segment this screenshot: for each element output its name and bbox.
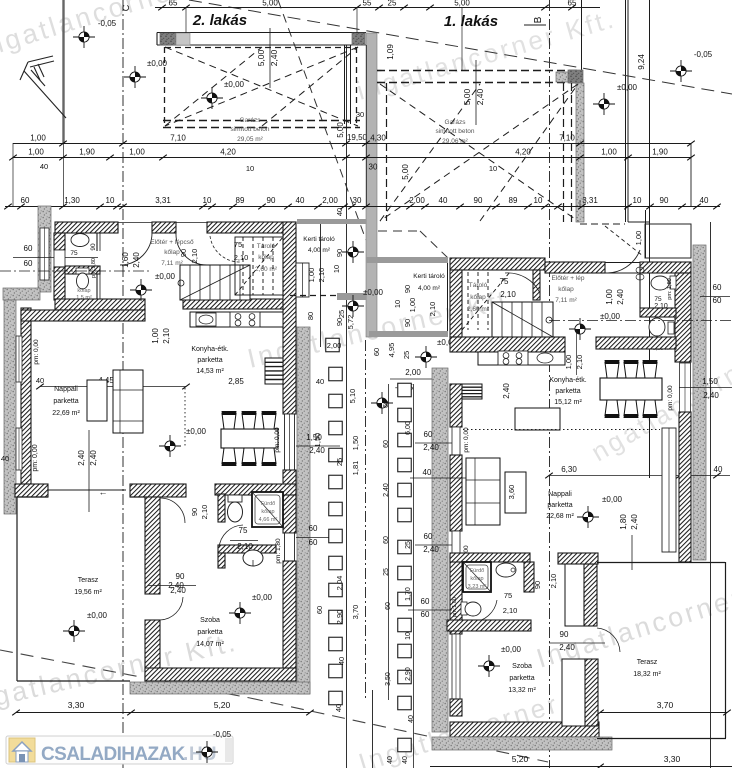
svg-text:1,30: 1,30	[64, 196, 80, 205]
svg-text:1,00: 1,00	[601, 148, 617, 157]
unit2 west wall window upper	[40, 228, 49, 280]
dim chain row2	[13, 157, 691, 159]
svg-text:1,00: 1,00	[30, 134, 46, 143]
svg-text:10: 10	[106, 196, 115, 205]
property dashed diagonal bottom	[0, 650, 250, 698]
unit2 north wall bath	[55, 222, 118, 233]
unit1 kitchen band	[450, 337, 565, 352]
svg-text:60: 60	[421, 597, 430, 606]
svg-text:2,40: 2,40	[383, 483, 390, 497]
svg-text:2,00: 2,00	[405, 368, 421, 377]
svg-text:parketta: parketta	[555, 388, 580, 395]
svg-text:3,30: 3,30	[664, 754, 681, 764]
svg-text:14,07 m²: 14,07 m²	[196, 641, 224, 648]
unit boundary dash-dot middle	[365, 340, 367, 700]
svg-text:5,20: 5,20	[512, 754, 529, 764]
svg-text:simított beton: simított beton	[230, 126, 269, 133]
svg-text:kőlap: kőlap	[164, 249, 180, 256]
unit2 south wall kitchen band	[130, 484, 186, 497]
svg-text:2,40: 2,40	[630, 514, 639, 530]
unit1 dotted divider	[463, 429, 660, 431]
svg-text:1,00: 1,00	[634, 231, 643, 246]
svg-text:40: 40	[423, 468, 432, 477]
unit1 side table	[515, 408, 560, 430]
svg-text:40: 40	[337, 657, 346, 665]
svg-text:2,04: 2,04	[335, 576, 344, 591]
svg-text:2,40: 2,40	[703, 391, 719, 400]
garage 2 right wall lines	[344, 45, 346, 124]
svg-text:2,00: 2,00	[322, 196, 338, 205]
unit2 south wall	[145, 668, 296, 681]
svg-text:1,90: 1,90	[652, 148, 668, 157]
unit2 stairs dashed upper	[235, 237, 283, 295]
svg-text:pm:1,80: pm:1,80	[452, 597, 458, 617]
svg-text:60: 60	[383, 536, 390, 544]
svg-text:75: 75	[504, 591, 512, 600]
right dim connector vline	[690, 143, 692, 207]
svg-text:65: 65	[568, 0, 577, 8]
svg-text:55: 55	[363, 0, 372, 8]
unit1 bath sink2	[496, 563, 516, 577]
unit2 bath toilet	[228, 495, 242, 502]
svg-text:-0,05: -0,05	[213, 730, 232, 739]
unit2 bath west wall	[54, 233, 65, 250]
svg-text:6,30: 6,30	[561, 465, 577, 474]
svg-text:1,00: 1,00	[408, 298, 417, 313]
svg-text:60: 60	[24, 244, 33, 253]
unit2 couch	[113, 370, 143, 433]
site line right double	[625, 0, 627, 222]
svg-text:4,20: 4,20	[515, 148, 531, 157]
svg-text:40: 40	[335, 208, 344, 216]
svg-text:Tároló: Tároló	[469, 282, 488, 289]
svg-text:1,00: 1,00	[307, 268, 316, 283]
unit1 stairs	[492, 302, 553, 337]
svg-text:60: 60	[424, 532, 433, 541]
svg-text:Terasz: Terasz	[78, 577, 99, 584]
svg-text:parketta: parketta	[197, 357, 222, 364]
svg-text:75: 75	[70, 250, 78, 257]
svg-text:40: 40	[1, 454, 9, 463]
garage 1 east wall speckle	[576, 83, 584, 222]
svg-text:Szoba: Szoba	[512, 663, 532, 670]
svg-text:2,00: 2,00	[409, 196, 425, 205]
dim extension guides	[12, 143, 14, 207]
unit2 storage walls east	[283, 222, 296, 414]
unit2 bath sink	[71, 234, 89, 247]
unit1 east speckle	[693, 245, 706, 560]
svg-text:-0,05: -0,05	[694, 50, 713, 59]
svg-text:±0,00: ±0,00	[87, 611, 108, 620]
svg-text:2,40: 2,40	[309, 446, 325, 455]
svg-text:-0,05: -0,05	[98, 19, 117, 28]
unit2 kitchen living dotted divider	[184, 388, 186, 448]
unit2 west wall jog speckle	[3, 288, 40, 300]
svg-text:60: 60	[421, 610, 430, 619]
svg-text:Terasz: Terasz	[637, 659, 658, 666]
logo csaladihazak.hu	[6, 736, 233, 764]
svg-text:2,40: 2,40	[89, 450, 98, 466]
unit2 east window2	[285, 533, 295, 561]
unit2 kerti south dashed	[290, 295, 340, 297]
unit1 shower	[463, 562, 491, 592]
svg-text:5,72: 5,72	[346, 315, 355, 330]
svg-text:22,68 m²: 22,68 m²	[546, 513, 574, 520]
svg-text:60: 60	[309, 538, 318, 547]
svg-text:±0,00: ±0,00	[186, 427, 207, 436]
svg-text:±0,00: ±0,00	[224, 80, 245, 89]
svg-text:±0,00: ±0,00	[155, 272, 176, 281]
svg-text:90: 90	[335, 249, 344, 257]
svg-text:2,10: 2,10	[549, 574, 558, 589]
svg-text:C: C	[121, 4, 131, 11]
unit2 kerti window	[296, 263, 309, 297]
unit2 entry door arc right	[176, 233, 207, 265]
unit2 kitchen counter	[190, 312, 283, 327]
svg-text:1. lakás: 1. lakás	[444, 13, 498, 30]
svg-text:60: 60	[21, 196, 30, 205]
svg-text:90: 90	[179, 249, 188, 257]
unit2 bath block walls	[65, 266, 100, 274]
bottom dim line lowest	[430, 766, 732, 768]
garage 2 corner block left	[160, 33, 176, 45]
svg-text:Fürdő: Fürdő	[261, 501, 275, 507]
fence squares right column	[398, 383, 412, 397]
svg-text:60: 60	[713, 283, 722, 292]
garage 1 top wall dashed	[377, 70, 580, 72]
unit1 terrace outline	[725, 562, 727, 738]
unit2 terrace szoba divider wall	[145, 497, 160, 594]
unit1 storage dashed	[462, 272, 510, 330]
svg-text:2,10: 2,10	[654, 303, 668, 310]
svg-text:simított beton: simított beton	[435, 128, 474, 135]
svg-text:1,09: 1,09	[386, 44, 395, 60]
svg-text:pm: 0,00: pm: 0,00	[33, 339, 40, 365]
svg-text:2. lakás: 2. lakás	[192, 12, 247, 29]
unit1 storage stairs block	[450, 258, 545, 270]
svg-text:3,70: 3,70	[351, 605, 360, 620]
svg-text:Fürdő: Fürdő	[470, 568, 484, 574]
svg-text:5,10: 5,10	[348, 389, 357, 404]
garage 2 bottom wall dashed	[163, 120, 360, 122]
unit2 wc2 sink	[243, 550, 263, 566]
svg-text:65: 65	[169, 0, 178, 8]
svg-text:.: .	[183, 744, 188, 765]
unit1 terrace dim	[600, 712, 727, 714]
svg-text:10: 10	[246, 164, 254, 173]
property line left	[62, 0, 64, 143]
svg-text:2,40: 2,40	[475, 88, 485, 105]
garage 2 side walls dashed	[164, 47, 166, 127]
svg-text:2,40: 2,40	[502, 383, 511, 399]
svg-text:←: ←	[99, 487, 108, 497]
svg-text:19,50: 19,50	[347, 133, 368, 142]
svg-text:2,00: 2,00	[327, 341, 342, 350]
svg-text:10: 10	[633, 196, 642, 205]
svg-text:60: 60	[383, 400, 390, 408]
unit1 bath sink	[651, 276, 669, 290]
svg-text:40: 40	[387, 756, 394, 764]
svg-text:4,95: 4,95	[387, 343, 396, 358]
unit2 window west lower	[16, 428, 22, 470]
svg-text:40: 40	[402, 756, 409, 764]
unit2 pantry shelf	[265, 358, 283, 384]
unit2 sink	[196, 313, 216, 326]
unit2 north wall storage	[207, 222, 295, 233]
unit1 dim 6.30	[549, 475, 680, 477]
svg-text:±0,00: ±0,00	[252, 593, 273, 602]
svg-text:5,00: 5,00	[256, 49, 266, 66]
svg-text:5,00: 5,00	[462, 88, 472, 105]
unit2 kerti tarolo	[297, 219, 366, 224]
right vline	[710, 222, 712, 768]
svg-text:10: 10	[534, 196, 543, 205]
svg-text:90: 90	[403, 285, 412, 293]
svg-text:pm: 0,00: pm: 0,00	[274, 427, 281, 453]
svg-text:5,00: 5,00	[454, 0, 470, 8]
svg-text:3,31: 3,31	[582, 196, 598, 205]
svg-text:1,00: 1,00	[129, 148, 145, 157]
svg-text:9,24: 9,24	[637, 54, 646, 70]
unit2 dim 4.45	[40, 386, 186, 388]
svg-text:3,23 m²: 3,23 m²	[468, 584, 487, 590]
svg-text:90: 90	[533, 581, 542, 589]
unit2 wc toilet	[76, 268, 89, 274]
svg-text:60: 60	[315, 606, 324, 614]
svg-text:Kerti tároló: Kerti tároló	[303, 236, 335, 243]
svg-text:2,40: 2,40	[77, 450, 86, 466]
svg-text:2,10: 2,10	[500, 290, 516, 299]
unit1 sofa	[466, 458, 500, 525]
unit1 fridge shelf	[457, 384, 482, 399]
svg-text:1,80: 1,80	[619, 514, 628, 530]
svg-text:40: 40	[408, 715, 415, 723]
svg-text:40: 40	[40, 162, 48, 171]
svg-text:pm: 0,00: pm: 0,00	[463, 427, 470, 453]
svg-text:25: 25	[335, 458, 344, 466]
svg-text:Konyha-étk.: Konyha-étk.	[191, 346, 228, 353]
unit2 east wall hatch bottom	[283, 561, 296, 681]
garage 2 cross diagonals	[165, 47, 358, 126]
garage 1 dim 5.00 2.40	[475, 60, 477, 125]
svg-text:19,56 m²: 19,56 m²	[74, 589, 102, 596]
svg-text:Garázs: Garázs	[445, 119, 467, 126]
svg-text:30: 30	[356, 110, 364, 119]
svg-text:2,10: 2,10	[162, 328, 171, 344]
unit2 sw corner wall	[15, 484, 48, 497]
svg-text:40: 40	[700, 196, 709, 205]
svg-text:89: 89	[236, 196, 245, 205]
svg-text:2,10: 2,10	[428, 302, 437, 317]
unit2 shower	[252, 492, 283, 527]
svg-text:kőlap: kőlap	[470, 294, 486, 301]
svg-text:kőlap: kőlap	[258, 254, 274, 261]
unit1 wc toilet	[668, 322, 674, 334]
unit1 bath mid	[450, 553, 530, 562]
unit1 stove	[498, 351, 528, 365]
svg-text:pm: 1,80: pm: 1,80	[667, 278, 673, 299]
svg-text:2,40: 2,40	[616, 289, 625, 305]
svg-text:parketta: parketta	[547, 502, 572, 509]
unit1 sink	[537, 353, 553, 363]
svg-text:pm: 0,00: pm: 0,00	[667, 385, 674, 411]
svg-text:2,40: 2,40	[132, 252, 141, 268]
svg-text:90: 90	[190, 508, 199, 516]
svg-text:parketta: parketta	[53, 398, 78, 405]
unit2 stove	[230, 312, 260, 327]
svg-text:4,66 m²: 4,66 m²	[259, 517, 278, 523]
svg-text:7,11 m²: 7,11 m²	[555, 297, 577, 304]
svg-text:10: 10	[393, 300, 402, 308]
svg-text:2,10: 2,10	[317, 268, 326, 283]
bottom dim line left	[16, 712, 310, 714]
svg-text:1,00: 1,00	[151, 328, 160, 344]
svg-text:Nappali: Nappali	[548, 491, 572, 498]
svg-text:60: 60	[24, 259, 33, 268]
unit1 kitchen counter	[478, 352, 565, 365]
svg-text:60: 60	[383, 440, 390, 448]
svg-text:1,60: 1,60	[121, 252, 130, 268]
svg-text:kőlap: kőlap	[470, 576, 483, 582]
garage 1 corner block	[568, 70, 583, 83]
svg-text:40: 40	[296, 196, 305, 205]
unit1 south wall	[450, 722, 599, 737]
svg-text:Nappali: Nappali	[54, 386, 78, 393]
unit1 north door opening lines	[605, 262, 640, 264]
unit2 bathroom walls	[218, 494, 225, 522]
svg-text:1,81: 1,81	[351, 461, 360, 476]
unit1 entry porch	[645, 210, 647, 258]
svg-text:10: 10	[489, 164, 497, 173]
svg-text:2,10: 2,10	[503, 606, 518, 615]
unit1 entry door arc	[605, 250, 640, 273]
unit2 dining table	[221, 429, 278, 448]
svg-text:5,00: 5,00	[336, 122, 345, 138]
unit1 bathroom	[675, 273, 691, 362]
svg-text:2,40: 2,40	[423, 545, 439, 554]
unit1 east wall hatch lower	[679, 412, 691, 562]
svg-text:30: 30	[353, 196, 362, 205]
svg-text:pm: 1,80: pm: 1,80	[275, 538, 282, 564]
svg-text:90: 90	[90, 243, 97, 251]
top dimension line	[155, 7, 600, 9]
svg-text:3,31: 3,31	[155, 196, 171, 205]
svg-text:2,40: 2,40	[168, 581, 184, 590]
svg-text:60: 60	[713, 296, 722, 305]
svg-text:Konyha-étk.: Konyha-étk.	[549, 377, 586, 384]
unit1 terrace pillar lower	[562, 659, 585, 726]
svg-text:1,90: 1,90	[79, 148, 95, 157]
svg-text:±0,00: ±0,00	[602, 495, 623, 504]
svg-text:4,00 m²: 4,00 m²	[308, 247, 331, 254]
svg-text:Kerti tároló: Kerti tároló	[413, 273, 445, 280]
svg-text:±0,00: ±0,00	[617, 83, 638, 92]
unit2 entry door arc left	[120, 233, 152, 265]
unit2 terrace	[16, 497, 18, 681]
svg-text:3,70: 3,70	[657, 700, 674, 710]
section line C dash-dot	[122, 0, 124, 768]
svg-text:29,05 m²: 29,05 m²	[237, 136, 263, 143]
unit2 terrace door dims	[88, 430, 90, 512]
svg-text:10: 10	[405, 632, 412, 640]
svg-text:25: 25	[388, 0, 397, 8]
svg-text:75: 75	[500, 277, 509, 286]
svg-text:1,00: 1,00	[28, 148, 44, 157]
unit2 kitchen south-wall band	[55, 299, 145, 310]
svg-text:1,00: 1,00	[605, 289, 614, 305]
unit1 west speckle	[432, 368, 448, 732]
unit2 east window	[285, 414, 295, 470]
svg-text:40: 40	[316, 377, 324, 386]
roof dashed diagonal long	[189, 0, 732, 94]
svg-text:30: 30	[369, 163, 378, 172]
svg-text:4,20: 4,20	[220, 148, 236, 157]
svg-text:1,50: 1,50	[306, 433, 322, 442]
svg-text:B: B	[533, 16, 544, 23]
svg-text:40: 40	[714, 465, 723, 474]
svg-text:60: 60	[309, 524, 318, 533]
svg-text:40: 40	[334, 704, 343, 712]
svg-text:±0,00: ±0,00	[600, 312, 621, 321]
unit2 coffee table	[87, 380, 107, 421]
svg-text:10: 10	[332, 265, 341, 273]
svg-text:2,90: 2,90	[405, 667, 412, 681]
unit2 south speckle	[130, 682, 310, 694]
svg-text:5,00: 5,00	[401, 164, 410, 180]
svg-text:1,00: 1,00	[564, 355, 573, 370]
dim chain row4	[5, 206, 720, 208]
svg-text:1,70: 1,70	[405, 587, 412, 601]
section line B dash-dot	[549, 0, 551, 768]
svg-text:40: 40	[439, 196, 448, 205]
garage 2 top wall	[157, 32, 366, 34]
svg-text:2,90: 2,90	[335, 610, 344, 625]
svg-text:90: 90	[474, 196, 483, 205]
svg-text:kőlap: kőlap	[558, 286, 574, 293]
unit2 stairs wall band	[183, 299, 283, 309]
garden edge line	[320, 224, 322, 347]
svg-text:2,10: 2,10	[200, 505, 209, 520]
svg-text:10: 10	[203, 196, 212, 205]
garage 2 corner block right	[352, 33, 365, 45]
svg-text:Előtér + lép: Előtér + lép	[551, 275, 584, 282]
svg-text:CSALADIHAZAK: CSALADIHAZAK	[41, 744, 186, 765]
svg-text:22,69 m²: 22,69 m²	[52, 410, 80, 417]
svg-text:3,50: 3,50	[385, 672, 392, 686]
svg-text:25: 25	[337, 310, 346, 318]
svg-text:±0,00: ±0,00	[501, 645, 522, 654]
unit1 terrace pillar upper	[565, 564, 584, 626]
unit1 toilet2	[461, 602, 467, 615]
svg-text:parketta: parketta	[509, 675, 534, 682]
unit2 west inner wall hatch	[21, 308, 31, 496]
svg-text:kőlap: kőlap	[77, 288, 90, 294]
svg-text:1,50: 1,50	[351, 436, 360, 451]
svg-text:5,20: 5,20	[214, 700, 231, 710]
svg-text:2,40: 2,40	[423, 443, 439, 452]
unit1 west wall hatch segments	[450, 384, 462, 427]
svg-text:90: 90	[403, 319, 412, 327]
spine wall grey	[366, 33, 377, 337]
svg-text:60: 60	[372, 348, 381, 356]
svg-text:Garázs: Garázs	[240, 117, 262, 124]
north arrow	[20, 56, 66, 118]
site line far right	[649, 0, 651, 478]
garage 1 side dashed	[563, 83, 565, 222]
svg-text:7,10: 7,10	[559, 134, 575, 143]
right centerline dashdot	[549, 320, 732, 322]
svg-text:±0,00: ±0,00	[363, 288, 384, 297]
